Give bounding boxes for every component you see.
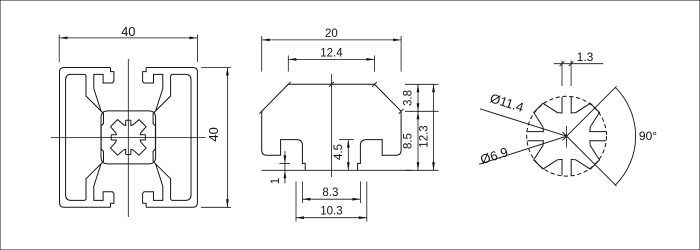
svg-text:8.3: 8.3 <box>322 187 338 199</box>
leader and label diameter 11.4 <box>480 109 567 136</box>
profile outline 40x40 (left view) <box>60 68 111 208</box>
leader and label diameter 6.9 <box>479 136 567 164</box>
slot detail outline (middle view) <box>262 84 332 170</box>
centerline vertical <box>127 59 129 217</box>
svg-text:12.3: 12.3 <box>419 125 431 147</box>
bore detail: serration star <box>527 97 606 176</box>
diagonal line NE for 90 deg <box>562 86 616 140</box>
dimension 8.3 <box>301 182 303 204</box>
dimension 1.3 <box>561 60 563 86</box>
dimension 3.8 <box>405 83 439 85</box>
svg-text:10.3: 10.3 <box>320 205 342 217</box>
dimension 4.5 <box>339 139 354 141</box>
slot bottom face line <box>262 169 413 171</box>
dimension 12.4 <box>287 56 289 72</box>
dimension 40 horizontal <box>58 35 60 63</box>
dimension 8.5 <box>417 111 419 170</box>
svg-text:12.4: 12.4 <box>320 47 343 59</box>
dimension 20 <box>261 36 263 72</box>
side cavity left <box>66 74 104 200</box>
centerline horizontal <box>51 136 206 138</box>
svg-text:8.5: 8.5 <box>403 133 415 149</box>
dimension 1 <box>280 162 291 164</box>
diagonal line SE for 90 deg <box>562 132 616 186</box>
bore detail: tip circle dashed <box>527 96 607 176</box>
center bore star <box>111 120 147 156</box>
bottom slot with hook lips <box>94 164 114 207</box>
centerline vertical short <box>566 126 568 148</box>
svg-text:40: 40 <box>206 127 221 141</box>
svg-text:90°: 90° <box>639 129 657 143</box>
top slot with hook lips <box>94 68 114 111</box>
svg-text:4.5: 4.5 <box>333 144 345 160</box>
svg-text:40: 40 <box>121 24 135 39</box>
dimension 12.3 <box>405 169 439 171</box>
centerline of slot detail <box>330 74 332 177</box>
corner ticks <box>286 82 291 87</box>
90 degree arc <box>615 87 635 185</box>
svg-text:1: 1 <box>270 178 282 184</box>
svg-text:3.8: 3.8 <box>403 90 415 106</box>
center boss <box>101 111 156 164</box>
side cavity right <box>153 74 191 200</box>
dimension 40 vertical <box>201 67 231 69</box>
dimension 10.3 <box>295 182 297 222</box>
svg-text:20: 20 <box>325 28 338 40</box>
svg-text:1.3: 1.3 <box>577 50 594 64</box>
